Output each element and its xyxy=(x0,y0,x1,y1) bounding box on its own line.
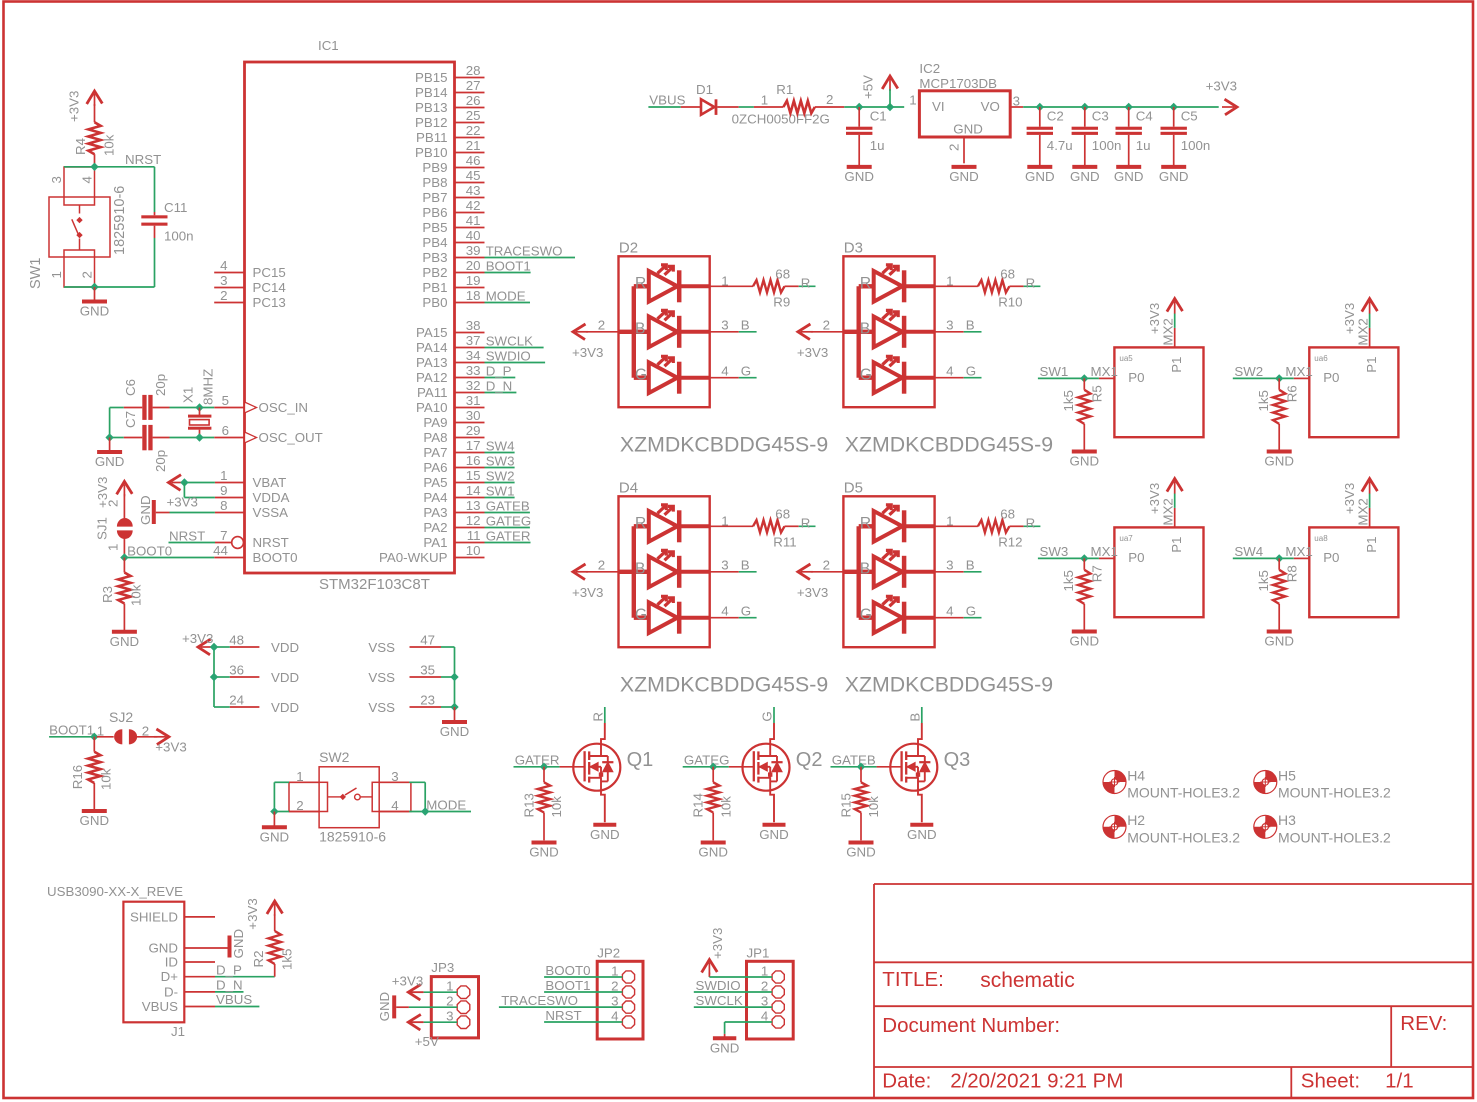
svg-text:44: 44 xyxy=(213,543,228,558)
ic IC1 pin 15 PA5 xyxy=(455,482,485,484)
svg-text:15: 15 xyxy=(466,468,481,483)
svg-text:D2: D2 xyxy=(619,240,638,257)
wire net SW3 xyxy=(485,467,515,469)
svg-text:OSC_OUT: OSC_OUT xyxy=(259,430,323,445)
svg-text:R: R xyxy=(1026,516,1036,531)
ic IC1 pin 9 VDDA xyxy=(215,497,245,499)
svg-text:28: 28 xyxy=(466,63,481,78)
svg-text:Date:: Date: xyxy=(882,1070,931,1093)
wire +3V3 down to VDDA xyxy=(183,483,185,498)
ic pin MX2 of SW1 xyxy=(1174,328,1176,348)
svg-text:1: 1 xyxy=(721,514,728,529)
svg-text:P1: P1 xyxy=(1169,537,1184,553)
svg-text:PB10: PB10 xyxy=(415,145,448,160)
svg-text:+3V3: +3V3 xyxy=(797,585,828,600)
wire VSS vertical bus xyxy=(454,647,456,707)
wire net R of D2 xyxy=(799,285,816,287)
switch module SW4 outline xyxy=(1309,527,1398,617)
ic IC1 pin 46 PB9 xyxy=(455,167,485,169)
svg-text:100n: 100n xyxy=(164,229,194,244)
svg-text:1u: 1u xyxy=(1136,138,1151,153)
connector JP2 pad 2 xyxy=(622,986,634,998)
svg-text:MX2: MX2 xyxy=(1355,498,1370,525)
wire R8 to GND xyxy=(1278,604,1280,630)
resistor R12 xyxy=(978,520,1010,532)
svg-text:22: 22 xyxy=(466,123,481,138)
svg-text:3: 3 xyxy=(220,273,227,288)
wire +3V3 vertical VDD bus xyxy=(213,647,215,707)
wire SW2 pin2 red xyxy=(289,811,319,813)
svg-text:PA15: PA15 xyxy=(416,325,448,340)
svg-text:GND: GND xyxy=(949,169,979,184)
wire SJ2 to +3V3 xyxy=(137,736,157,738)
ic IC1 pin 10 PA0-WKUP xyxy=(455,557,485,559)
svg-text:VSS: VSS xyxy=(368,670,395,685)
svg-text:PA10: PA10 xyxy=(416,400,448,415)
wire C11 to GND rail of SW1 xyxy=(154,238,156,287)
svg-text:R16: R16 xyxy=(70,765,85,789)
svg-text:R: R xyxy=(860,275,871,292)
svg-text:+3V3: +3V3 xyxy=(572,345,603,360)
wire net VBUS at J1 xyxy=(215,1006,259,1008)
svg-text:6: 6 xyxy=(222,423,229,438)
svg-text:H4: H4 xyxy=(1127,767,1145,783)
svg-text:10k: 10k xyxy=(102,134,117,156)
wire net B of D5 xyxy=(964,571,982,573)
svg-text:GND: GND xyxy=(907,827,937,842)
ground GND below R13 xyxy=(532,841,557,845)
wire net SW1 xyxy=(1038,377,1099,379)
svg-text:PB8: PB8 xyxy=(422,175,447,190)
wire J1 SHIELD stub xyxy=(184,916,215,918)
ic IC1 pin 24 VDD xyxy=(230,706,260,708)
wire net GATEB xyxy=(831,766,877,768)
wire net SW2 xyxy=(1233,377,1294,379)
svg-text:MX2: MX2 xyxy=(1161,318,1176,345)
svg-text:19: 19 xyxy=(466,273,481,288)
transistor Q1 channel xyxy=(588,751,590,760)
junction SW1 at resistor xyxy=(1080,374,1088,382)
capacitor C11 xyxy=(154,212,156,215)
svg-text:C1: C1 xyxy=(870,109,887,124)
svg-text:GATEB: GATEB xyxy=(832,752,876,767)
svg-text:PB1: PB1 xyxy=(422,280,447,295)
wire VDD feed 36 xyxy=(214,676,230,678)
transistor Q1 body diode xyxy=(607,756,609,781)
svg-text:MOUNT-HOLE3.2: MOUNT-HOLE3.2 xyxy=(1278,829,1391,845)
svg-text:B: B xyxy=(741,557,750,572)
wire net G at Q2 drain xyxy=(773,707,775,723)
ic IC1 pin 30 PA9 xyxy=(455,422,485,424)
svg-text:30: 30 xyxy=(466,408,481,423)
wire net R at Q1 drain xyxy=(604,707,606,723)
svg-text:MCP1703DB: MCP1703DB xyxy=(919,76,997,91)
svg-text:1: 1 xyxy=(761,92,768,107)
svg-text:D5: D5 xyxy=(844,480,863,497)
transistor Q3 body circle xyxy=(890,744,937,791)
junction SW2 at resistor xyxy=(1275,374,1283,382)
ic IC1 pin 41 PB5 xyxy=(455,227,485,229)
svg-text:PB12: PB12 xyxy=(415,115,448,130)
svg-text:PB6: PB6 xyxy=(422,205,447,220)
svg-text:VO: VO xyxy=(981,99,1000,114)
svg-text:18: 18 xyxy=(466,288,481,303)
connector JP2 pad 4 xyxy=(622,1016,634,1028)
svg-text:Sheet:: Sheet: xyxy=(1301,1070,1360,1093)
junction BOOT0 xyxy=(120,553,128,561)
svg-text:VDDA: VDDA xyxy=(253,490,290,505)
svg-text:R: R xyxy=(635,275,646,292)
svg-text:XZMDKCBDDG45S-9: XZMDKCBDDG45S-9 xyxy=(620,432,828,456)
wire JP1 pin1 xyxy=(708,973,710,978)
wire SW2 pin3 green xyxy=(409,781,425,783)
mount hole H2 xyxy=(1115,815,1127,827)
svg-text:TITLE:: TITLE: xyxy=(882,968,944,991)
wire pin 2 of D2 xyxy=(619,330,634,334)
connector JP2 outline xyxy=(597,961,643,1039)
svg-text:GND: GND xyxy=(529,845,559,860)
svg-text:3: 3 xyxy=(49,176,64,183)
ground GND at J1 rotated xyxy=(228,936,232,958)
svg-text:H3: H3 xyxy=(1278,812,1296,828)
power +5V arrow xyxy=(882,76,898,89)
svg-text:R14: R14 xyxy=(691,793,706,817)
transistor Q3 source lead xyxy=(906,777,918,779)
svg-text:35: 35 xyxy=(420,663,435,678)
svg-text:PC15: PC15 xyxy=(253,265,286,280)
svg-text:PA1: PA1 xyxy=(423,535,447,550)
svg-text:4: 4 xyxy=(721,363,728,378)
ic IC1 pin 29 PA8 xyxy=(455,437,485,439)
wire R3 to GND xyxy=(123,604,125,631)
svg-text:4: 4 xyxy=(946,363,953,378)
connector JP1 pad 4 xyxy=(772,1016,784,1028)
wire net R of D3 xyxy=(1024,285,1041,287)
led G of D2 xyxy=(634,376,649,380)
svg-text:PB7: PB7 xyxy=(422,190,447,205)
svg-text:P1: P1 xyxy=(1364,357,1379,373)
ground GND below SW1 xyxy=(94,287,96,300)
led B of D2 xyxy=(634,330,649,334)
svg-text:D3: D3 xyxy=(844,240,863,257)
svg-text:PB0: PB0 xyxy=(422,295,447,310)
svg-text:100n: 100n xyxy=(1092,138,1122,153)
wire net SW2 xyxy=(485,482,515,484)
svg-text:ua6: ua6 xyxy=(1314,354,1328,363)
wire net GATEB xyxy=(485,512,530,514)
svg-text:R: R xyxy=(590,712,605,722)
junction SW3 at resistor xyxy=(1080,554,1088,562)
wire J1 D+ stub xyxy=(184,976,215,978)
svg-text:B: B xyxy=(741,317,750,332)
ground GND at Q3 source xyxy=(910,823,933,827)
svg-text:R: R xyxy=(635,515,646,532)
svg-text:ua5: ua5 xyxy=(1119,354,1133,363)
svg-text:1: 1 xyxy=(106,544,121,551)
svg-text:SW1: SW1 xyxy=(1040,364,1069,379)
svg-text:31: 31 xyxy=(466,393,481,408)
svg-text:GND: GND xyxy=(1264,634,1294,649)
resistor R11 xyxy=(753,520,785,532)
svg-text:R: R xyxy=(860,515,871,532)
svg-text:+3V3: +3V3 xyxy=(1206,79,1237,94)
wire SW2 pin3 red xyxy=(379,781,409,783)
wire R7 to GND xyxy=(1083,604,1085,630)
power +3V3 arrow at rail end xyxy=(1225,99,1238,115)
svg-text:PA6: PA6 xyxy=(423,460,447,475)
svg-text:SW2: SW2 xyxy=(486,468,515,483)
svg-text:D_P: D_P xyxy=(486,363,512,378)
led G of D5 xyxy=(859,616,874,620)
resistor R8 xyxy=(1278,558,1280,569)
svg-text:R8: R8 xyxy=(1284,565,1299,582)
connector JP3 outline xyxy=(431,977,478,1038)
wire MX2 to +3V3 xyxy=(1174,493,1176,508)
junction GATEG xyxy=(709,763,717,771)
svg-text:USB3090-XX-X_REVE: USB3090-XX-X_REVE xyxy=(47,884,183,899)
wire J1 D- stub xyxy=(184,991,215,993)
svg-text:2: 2 xyxy=(947,144,962,151)
svg-text:NRST: NRST xyxy=(125,152,161,167)
ground GND below R6 xyxy=(1267,450,1292,454)
wire net BOOT1 xyxy=(485,272,531,274)
svg-text:G: G xyxy=(741,603,751,618)
wire MX2 to +3V3 xyxy=(1369,493,1371,508)
svg-text:10k: 10k xyxy=(99,768,114,790)
svg-text:PB3: PB3 xyxy=(422,250,447,265)
svg-text:2: 2 xyxy=(80,271,95,278)
wire pin 3 of D5 xyxy=(935,571,964,573)
junction SW4 at resistor xyxy=(1275,554,1283,562)
wire VSS feed 23 xyxy=(441,706,455,708)
svg-text:26: 26 xyxy=(466,93,481,108)
svg-text:C2: C2 xyxy=(1047,109,1064,124)
wire net GATEG xyxy=(683,766,729,768)
wire pin 1 of D2 xyxy=(710,285,753,287)
power +3V3 arrow at SW2 xyxy=(1362,299,1378,312)
svg-text:VI: VI xyxy=(932,99,945,114)
svg-text:+3V3: +3V3 xyxy=(710,928,725,959)
svg-text:R12: R12 xyxy=(998,534,1022,549)
power +3V3 arrow right at SJ2 xyxy=(156,729,169,745)
ic IC2 outline xyxy=(919,91,1010,137)
svg-text:GATEG: GATEG xyxy=(486,513,532,528)
svg-text:ua8: ua8 xyxy=(1314,534,1328,543)
svg-text:4: 4 xyxy=(946,603,953,618)
svg-text:3: 3 xyxy=(946,557,953,572)
svg-text:2: 2 xyxy=(826,92,833,107)
transistor Q3 body diode xyxy=(924,756,926,781)
junction GATER xyxy=(540,763,548,771)
switch SW1 lever contacts xyxy=(79,205,81,214)
wire to VDDA pin xyxy=(184,497,215,499)
svg-text:TRACESWO: TRACESWO xyxy=(486,243,563,258)
wire net B of D4 xyxy=(739,571,757,573)
wire net SW4 xyxy=(1233,557,1294,559)
svg-text:2: 2 xyxy=(106,500,121,507)
junction X1 bottom xyxy=(195,433,203,441)
ground GND below C5 xyxy=(1161,165,1186,169)
junction C1 tap xyxy=(855,103,863,111)
svg-text:34: 34 xyxy=(466,348,481,363)
ground GND at JP1 xyxy=(724,1034,726,1037)
wire VDD feed 48 xyxy=(214,646,230,648)
svg-text:C3: C3 xyxy=(1092,109,1109,124)
ic IC1 pin 27 PB14 xyxy=(455,92,485,94)
transistor Q2 body diode xyxy=(776,756,778,781)
transistor Q3 drain lead xyxy=(906,755,925,757)
solder jumper SJ1 xyxy=(117,518,133,527)
resistor R4 xyxy=(88,122,100,154)
svg-text:36: 36 xyxy=(229,663,244,678)
svg-text:1: 1 xyxy=(220,468,227,483)
wire pin 4 of D2 xyxy=(710,377,739,379)
switch SW2 lever xyxy=(328,796,341,798)
connector JP1 pad 1 xyxy=(772,971,784,983)
svg-text:P0: P0 xyxy=(1128,370,1144,385)
svg-text:PA4: PA4 xyxy=(423,490,447,505)
svg-text:27: 27 xyxy=(466,78,481,93)
svg-text:PA0-WKUP: PA0-WKUP xyxy=(379,550,448,565)
ic IC1 pin 3 PC14 xyxy=(214,287,244,289)
svg-text:2: 2 xyxy=(598,317,605,332)
wire +3V3 output rail xyxy=(1023,106,1218,108)
resistor R14 xyxy=(712,767,714,783)
svg-text:32: 32 xyxy=(466,378,481,393)
svg-text:1k5: 1k5 xyxy=(1256,570,1271,591)
svg-text:C6: C6 xyxy=(123,379,138,396)
wire SW2 pin1 red xyxy=(289,781,319,783)
wire SW2 left vertical xyxy=(273,782,275,811)
svg-text:68: 68 xyxy=(775,267,790,282)
led R of D5 xyxy=(859,524,874,528)
svg-text:SJ2: SJ2 xyxy=(109,709,133,725)
power +3V3 arrow at SW4 xyxy=(1362,479,1378,492)
ic IC1 pin 26 PB13 xyxy=(455,107,485,109)
svg-text:VDD: VDD xyxy=(271,700,299,715)
svg-text:B: B xyxy=(907,713,922,722)
wire net D_N xyxy=(485,392,517,394)
switch SW1 body xyxy=(49,197,110,257)
wire SW4 pin MX1 xyxy=(1294,557,1310,559)
ic IC1 pin 8 VSSA xyxy=(215,512,245,514)
wire net G of D2 xyxy=(739,377,757,379)
svg-text:X1: X1 xyxy=(181,387,196,403)
wire net SWDIO xyxy=(485,362,546,364)
wire gate stub of Q1 xyxy=(560,766,585,768)
svg-text:PC14: PC14 xyxy=(253,280,286,295)
ic IC1 pin 5 OSC_IN xyxy=(214,407,244,409)
ground GND below R3 xyxy=(112,630,137,634)
wire net SW3 xyxy=(1038,557,1099,559)
ic pin MX2 of SW3 xyxy=(1174,508,1176,528)
ic IC1 pin 36 VDD xyxy=(230,676,260,678)
svg-text:OSC_IN: OSC_IN xyxy=(259,400,309,415)
wire R13 to GND xyxy=(543,813,545,841)
svg-text:1k5: 1k5 xyxy=(280,949,295,970)
wire net D_N at J1 xyxy=(215,991,244,993)
svg-text:BOOT0: BOOT0 xyxy=(545,963,590,978)
svg-text:VSS: VSS xyxy=(368,640,395,655)
ic IC1 pin 4 PC15 xyxy=(214,272,244,274)
svg-text:33: 33 xyxy=(466,363,481,378)
junction osc GND xyxy=(105,433,113,441)
svg-text:NRST: NRST xyxy=(253,535,289,550)
junction VDD 48 xyxy=(210,643,218,651)
wire net G of D3 xyxy=(964,377,982,379)
led G of D3 xyxy=(859,376,874,380)
svg-text:20p: 20p xyxy=(153,374,168,396)
power +3V3 arrow at VBAT xyxy=(169,475,182,491)
svg-text:10k: 10k xyxy=(129,584,144,606)
wire JP1 pin4 xyxy=(725,1021,773,1023)
svg-text:68: 68 xyxy=(1000,507,1015,522)
svg-text:SHIELD: SHIELD xyxy=(130,909,178,924)
wire SW2 pin2 stub green xyxy=(274,811,289,813)
wire SW3 pin MX1 xyxy=(1099,557,1115,559)
ic IC1 pin 12 PA2 xyxy=(455,527,485,529)
svg-text:JP2: JP2 xyxy=(597,945,620,960)
wire pin 1 of D3 xyxy=(935,285,978,287)
power +3V3 arrow at SW3 xyxy=(1167,479,1183,492)
svg-text:GND: GND xyxy=(377,992,392,1022)
ic IC1 pin 38 PA15 xyxy=(455,332,485,334)
svg-text:BOOT0: BOOT0 xyxy=(127,543,172,558)
svg-text:B: B xyxy=(966,557,975,572)
svg-text:40: 40 xyxy=(466,228,481,243)
svg-text:PA13: PA13 xyxy=(416,355,448,370)
svg-text:SW3: SW3 xyxy=(1040,544,1069,559)
svg-text:C4: C4 xyxy=(1136,109,1153,124)
led G arrows of D2 xyxy=(658,357,666,365)
svg-text:MX2: MX2 xyxy=(1161,498,1176,525)
junction MODE xyxy=(421,807,429,815)
svg-text:68: 68 xyxy=(775,507,790,522)
led R arrows of D5 xyxy=(882,506,890,514)
svg-text:+3V3: +3V3 xyxy=(182,631,213,646)
svg-text:SW4: SW4 xyxy=(486,438,515,453)
led G arrows of D5 xyxy=(882,597,890,605)
svg-text:GND: GND xyxy=(1025,169,1055,184)
ic IC1 pin 42 PB6 xyxy=(455,212,485,214)
svg-text:REV:: REV: xyxy=(1400,1012,1447,1035)
svg-text:BOOT1: BOOT1 xyxy=(49,723,94,738)
ic IC1 pin 21 PB10 xyxy=(455,152,485,154)
svg-text:8: 8 xyxy=(220,498,227,513)
wire R1 to +5V node xyxy=(844,106,904,108)
junction C5 tap xyxy=(1170,103,1178,111)
wire pin 4 of D3 xyxy=(935,377,964,379)
wire BOOT0 to pin44 xyxy=(124,557,214,559)
svg-text:G: G xyxy=(966,363,976,378)
capacitor C1 xyxy=(858,107,860,127)
ground GND below R14 xyxy=(701,841,726,845)
svg-text:SWDIO: SWDIO xyxy=(696,978,741,993)
svg-text:GATER: GATER xyxy=(515,752,560,767)
svg-text:+3V3: +3V3 xyxy=(797,345,828,360)
wire SW2 pin4 red xyxy=(379,811,409,813)
svg-text:GND: GND xyxy=(80,304,110,319)
svg-text:8MHZ: 8MHZ xyxy=(201,369,216,405)
junction BOOT1 R16 xyxy=(90,733,98,741)
svg-text:GND: GND xyxy=(80,813,110,828)
svg-text:GND: GND xyxy=(440,724,470,739)
resistor R3 xyxy=(118,573,130,604)
svg-text:9: 9 xyxy=(220,483,227,498)
svg-text:PA7: PA7 xyxy=(423,445,447,460)
svg-text:4: 4 xyxy=(220,258,227,273)
svg-text:NRST: NRST xyxy=(545,1008,581,1023)
